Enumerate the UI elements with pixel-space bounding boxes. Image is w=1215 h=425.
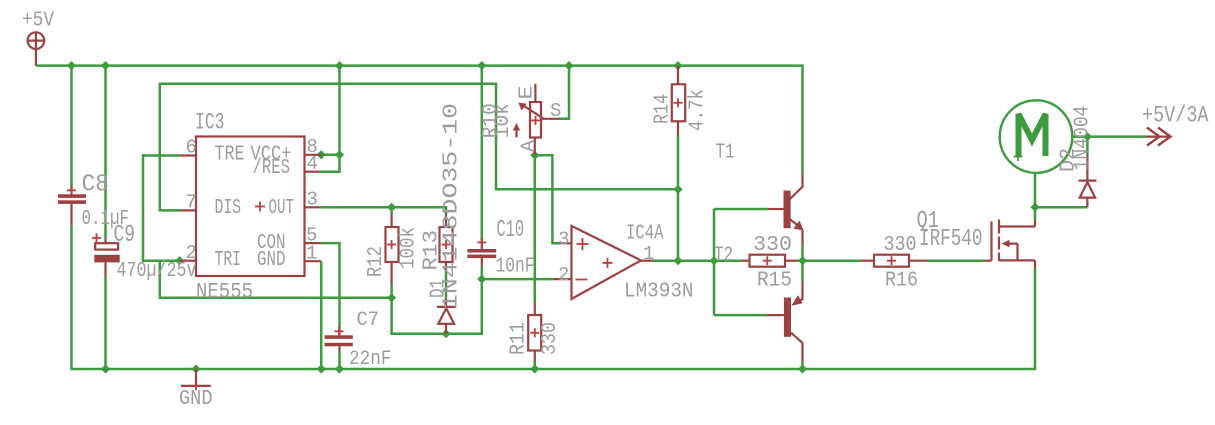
svg-text:470µ/25v: 470µ/25v xyxy=(117,260,197,283)
svg-text:1: 1 xyxy=(643,243,654,265)
svg-text:GND: GND xyxy=(257,249,286,272)
resistor R14 xyxy=(672,66,685,137)
resistor R15 xyxy=(741,255,798,267)
wire D2 cathode riser xyxy=(1086,137,1089,155)
svg-text:3: 3 xyxy=(307,189,318,211)
wire C7 bottom xyxy=(338,351,341,369)
wire C9 bottom xyxy=(104,276,107,369)
node bus C10 riser xyxy=(477,61,486,70)
svg-text:330: 330 xyxy=(539,322,562,355)
wire bottom bus xyxy=(72,226,1036,370)
svg-text:C10: C10 xyxy=(497,217,525,244)
wire xyxy=(36,66,803,173)
diode D2 1N4004 xyxy=(1079,155,1097,207)
wire T2 collector down xyxy=(801,361,804,369)
svg-text:T2: T2 xyxy=(714,244,733,267)
wire xyxy=(160,84,678,261)
svg-text:/RES: /RES xyxy=(253,157,291,180)
svg-text:10k: 10k xyxy=(492,103,515,138)
svg-text:1N4148DO35-10: 1N4148DO35-10 xyxy=(441,103,464,310)
svg-text:R14: R14 xyxy=(652,94,675,124)
svg-text:DIS: DIS xyxy=(215,197,242,220)
wire xyxy=(321,243,339,331)
svg-text:330: 330 xyxy=(753,234,792,257)
wire ramp node xyxy=(392,279,482,334)
capacitor C8 xyxy=(58,186,86,226)
node bus C9 xyxy=(101,61,110,70)
transistor T1 NPN xyxy=(768,173,804,245)
node OUT R12 xyxy=(387,203,396,212)
node bus VCC riser xyxy=(335,61,344,70)
wire C10 branch xyxy=(481,66,484,243)
svg-text:6: 6 xyxy=(186,137,197,159)
node gnd symbol xyxy=(191,364,200,373)
svg-text:R15: R15 xyxy=(757,270,792,293)
node R14 bottom xyxy=(673,185,682,194)
wire pot A to comparator pin3 xyxy=(535,155,560,243)
node gnd T2 xyxy=(798,364,807,373)
node bus C8 xyxy=(67,61,76,70)
GND symbol xyxy=(181,369,211,390)
pin 7 DIS xyxy=(181,209,197,211)
capacitor C10 xyxy=(467,238,496,266)
motor M1 xyxy=(1000,100,1073,173)
pin 4 /RES xyxy=(305,171,320,173)
svg-text:E: E xyxy=(516,86,538,100)
wire motor right lead xyxy=(1073,135,1146,138)
wire output to R15 xyxy=(653,259,741,262)
node drain motor xyxy=(1030,203,1039,212)
resistor R13 xyxy=(440,214,453,272)
svg-text:4: 4 xyxy=(307,153,318,175)
svg-text:TRE: TRE xyxy=(215,143,245,166)
node gnd C7 xyxy=(335,364,344,373)
op-amp IC4A LM393N xyxy=(554,226,653,299)
node pin8 xyxy=(317,150,326,159)
wire pin8 to riser xyxy=(321,154,339,157)
svg-text:1: 1 xyxy=(306,242,317,264)
svg-text:2: 2 xyxy=(558,264,569,286)
wire C10 bottom node to pin2 xyxy=(481,266,484,279)
wire emitter node xyxy=(801,245,804,281)
svg-text:330: 330 xyxy=(884,234,917,257)
wire VCC pin8/4 branch xyxy=(320,66,340,172)
wire C8 branch xyxy=(70,66,73,191)
wire R11 bottom xyxy=(534,361,537,369)
output arrow +5V/3A xyxy=(1146,128,1171,146)
wire R12 top stub xyxy=(390,207,393,214)
svg-text:IRF540: IRF540 xyxy=(919,226,983,253)
svg-text:S: S xyxy=(550,100,561,122)
svg-text:NE555: NE555 xyxy=(196,280,253,305)
wire motor bottom xyxy=(1034,173,1037,207)
wire pot S branch xyxy=(559,66,569,119)
svg-text:TRI: TRI xyxy=(215,249,242,272)
svg-text:R12: R12 xyxy=(365,246,388,277)
+5V supply symbol xyxy=(28,32,45,65)
node pin2 TRI xyxy=(175,256,184,265)
node pin8 riser xyxy=(335,150,344,159)
pin 3 OUT xyxy=(305,206,322,208)
wire R12 bottom xyxy=(390,285,393,298)
diode D1 1N4148 xyxy=(437,298,456,334)
svg-text:10nF: 10nF xyxy=(496,256,535,279)
node bus R14 xyxy=(673,61,682,70)
potentiometer R10 xyxy=(513,84,559,156)
wire pin6 down to pin2 xyxy=(143,156,181,261)
svg-text:R16: R16 xyxy=(885,270,918,293)
node gnd pin1 xyxy=(317,364,326,373)
resistor R11 xyxy=(528,303,541,362)
wire R13 bottom to D1 xyxy=(445,271,448,298)
pin 8 VCC+ xyxy=(305,154,322,156)
wire R15 right to emitters xyxy=(798,259,803,262)
svg-text:1N4004: 1N4004 xyxy=(1072,106,1095,171)
wire pot A down to R11 xyxy=(534,155,537,303)
wire R14 bottom xyxy=(677,136,680,189)
resistor R16 xyxy=(861,255,928,267)
node gnd C9 xyxy=(101,364,110,373)
wire to D2 anode xyxy=(1035,206,1087,209)
svg-text:C8: C8 xyxy=(82,171,110,198)
wire C9 branch xyxy=(104,66,107,238)
wire T2 base xyxy=(714,314,766,317)
svg-text:4.7k: 4.7k xyxy=(687,89,710,131)
node output xyxy=(673,256,682,265)
svg-text:LM393N: LM393N xyxy=(624,281,694,304)
IC3 NE555 box xyxy=(196,137,305,277)
svg-text:GND: GND xyxy=(179,388,213,411)
svg-text:IC3: IC3 xyxy=(195,110,225,136)
wire pin1 GND drop xyxy=(320,261,323,369)
wire drain riser xyxy=(1034,207,1037,219)
svg-text:A: A xyxy=(518,139,540,152)
resistor R12 xyxy=(386,214,399,286)
node pot A xyxy=(530,151,539,160)
node motor D2 out xyxy=(1083,132,1092,141)
svg-text:R11: R11 xyxy=(508,322,531,355)
wire pin3 to R13 top xyxy=(321,207,446,214)
node D1 anode xyxy=(441,329,450,338)
svg-text:+5V: +5V xyxy=(22,10,54,33)
svg-text:OUT: OUT xyxy=(269,197,295,220)
pin 2 TRI xyxy=(181,260,197,262)
wire T1 base xyxy=(714,208,768,211)
svg-text:T1: T1 xyxy=(716,142,735,165)
svg-text:C7: C7 xyxy=(357,309,380,332)
pin 5 CON xyxy=(305,242,322,244)
svg-text:C9: C9 xyxy=(114,222,136,249)
wire xyxy=(482,278,554,281)
wire pin2 down branch xyxy=(160,261,392,298)
pin 6 TRE xyxy=(181,154,197,156)
transistor T2 PNP xyxy=(766,281,803,362)
svg-text:22nF: 22nF xyxy=(349,348,392,371)
wire to R16 xyxy=(803,259,862,262)
pin 1 GND xyxy=(305,260,322,262)
node R12 bottom xyxy=(387,293,396,302)
capacitor C9 electrolytic xyxy=(92,233,120,276)
svg-text:3: 3 xyxy=(558,228,569,250)
capacitor C7 xyxy=(325,327,353,351)
node emitters xyxy=(798,256,807,265)
svg-text:100k: 100k xyxy=(398,227,421,269)
node gnd R11 xyxy=(530,364,539,373)
svg-text:7: 7 xyxy=(186,192,197,214)
IC3 origin cross xyxy=(255,202,265,212)
node bus pot S xyxy=(564,61,573,70)
node base branch xyxy=(709,256,718,265)
MOSFET Q1 IRF540 xyxy=(985,220,1036,269)
svg-text:+5V/3A: +5V/3A xyxy=(1142,102,1209,128)
node C10 bottom xyxy=(477,275,486,284)
wire base branch riser xyxy=(713,209,716,315)
wire R16 to gate xyxy=(928,259,985,262)
